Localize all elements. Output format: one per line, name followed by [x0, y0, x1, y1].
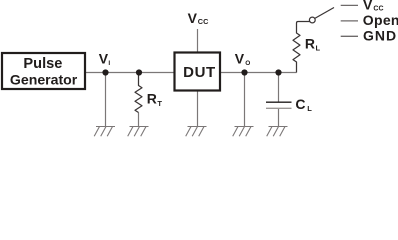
svg-text:Pulse: Pulse	[23, 56, 62, 72]
svg-text:V: V	[363, 0, 373, 13]
svg-text:DUT: DUT	[183, 64, 216, 81]
svg-text:GND: GND	[363, 28, 397, 44]
svg-text:V: V	[235, 51, 245, 67]
svg-text:I: I	[108, 60, 110, 67]
svg-text:Generator: Generator	[10, 71, 78, 87]
svg-text:T: T	[157, 99, 162, 108]
svg-text:L: L	[316, 44, 321, 53]
svg-text:V: V	[99, 51, 109, 67]
svg-text:V: V	[188, 10, 198, 26]
svg-text:O: O	[245, 60, 250, 67]
svg-text:R: R	[305, 36, 315, 52]
svg-text:R: R	[147, 91, 157, 107]
svg-text:CC: CC	[198, 17, 209, 26]
svg-text:Open: Open	[363, 12, 398, 28]
svg-text:L: L	[307, 104, 312, 113]
svg-text:C: C	[295, 96, 305, 112]
